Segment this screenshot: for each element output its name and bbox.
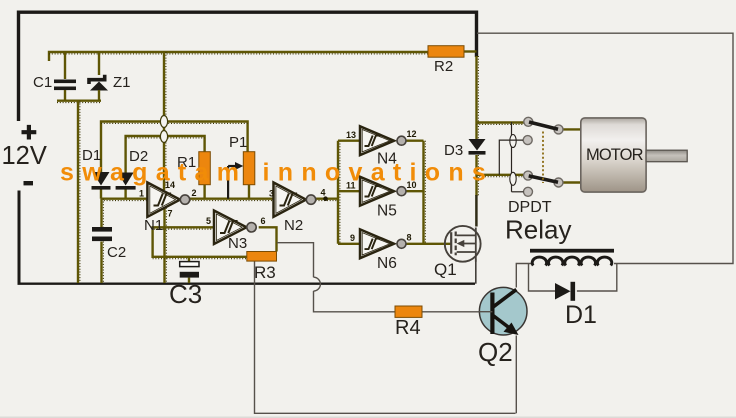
relay contact pole2 (524, 171, 533, 180)
label C1 (33, 74, 52, 91)
relay contact no2 (554, 178, 563, 187)
motor body (581, 118, 646, 192)
inverter N5 (360, 177, 406, 206)
svg-text:Z1: Z1 (113, 74, 131, 91)
wire N1 pin7 to ground (165, 205, 167, 283)
wire N4 output (406, 139, 424, 141)
label Q2 (478, 337, 513, 367)
capacitor C1 (54, 52, 76, 101)
pin 5 N3 (206, 216, 211, 226)
svg-text:1: 1 (139, 189, 144, 199)
wire ground rail (18, 283, 476, 285)
svg-text:6: 6 (261, 216, 266, 226)
svg-text:12: 12 (407, 129, 417, 139)
wire relay throw1 to motor (563, 128, 581, 130)
label N5 (377, 203, 397, 220)
relay lever1 (529, 122, 558, 129)
resistor R4 (395, 306, 422, 317)
wire C1 Z1 bottom (57, 101, 101, 103)
pin 6 N3 (261, 216, 266, 226)
label N6 (377, 255, 397, 272)
svg-text:swagatam innovations: swagatam innovations (60, 159, 494, 187)
pin 14 N1 (165, 180, 175, 190)
wire N1 pin14 supply (164, 52, 166, 190)
capacitor C2 (92, 227, 112, 241)
wire D2 top to R1 top (126, 136, 205, 173)
svg-text:5: 5 (206, 216, 211, 226)
potentiometer P1 (228, 152, 255, 185)
svg-text:7: 7 (168, 209, 173, 219)
label Relay (505, 215, 571, 245)
pin 10 N5 (407, 180, 417, 190)
hop ellipse over D2 wire (160, 131, 167, 143)
diode D3 (469, 139, 486, 155)
svg-text:N2: N2 (284, 217, 303, 234)
inverter N1 (147, 183, 189, 217)
wire D1 cathode lead (100, 190, 102, 199)
wire Q2 emitter down (515, 336, 517, 414)
battery plus sign (22, 125, 37, 140)
relay coil windings (531, 257, 613, 265)
wire C3 bottom lead (188, 278, 190, 283)
svg-text:C3: C3 (169, 279, 202, 309)
svg-text:R3: R3 (254, 263, 276, 282)
battery 12V label (2, 142, 47, 170)
wire battery positive top border (19, 12, 477, 121)
wire relay feed lower (477, 175, 524, 177)
wire D2 cathode lead (124, 190, 126, 199)
svg-text:D1: D1 (565, 301, 597, 329)
svg-text:3: 3 (269, 189, 274, 199)
pin 3 N2 (269, 189, 274, 199)
node junction dot N2 output (323, 196, 328, 201)
wire R1 bottom lead (203, 185, 205, 199)
wire N4 input (338, 139, 360, 141)
label MOTOR (586, 146, 644, 164)
relay contact pole1 (524, 117, 533, 126)
wire D1 top to P1 top (101, 122, 248, 173)
watermark swagatam innovations (60, 159, 494, 187)
svg-text:N3: N3 (228, 235, 247, 252)
resistor R2 (428, 46, 464, 58)
pin 9 N6 (350, 233, 355, 243)
label R3 (254, 263, 276, 282)
resistor R3 (247, 252, 277, 262)
diode D2 steering (116, 173, 136, 190)
pin 1 N1 (139, 189, 144, 199)
transistor Q2 (479, 287, 528, 335)
wire P1 wiper to output net (227, 166, 229, 199)
pin 12 N4 (407, 129, 417, 139)
label N4 (377, 151, 397, 168)
wire R3 bottom to emitter bottom rail (255, 259, 516, 413)
label N2 (284, 217, 303, 234)
svg-text:C1: C1 (33, 74, 52, 91)
svg-text:N1: N1 (144, 217, 163, 234)
wire freewheel diode loop (529, 264, 617, 292)
mosfet Q1 (445, 226, 481, 262)
SECTION: components (54, 46, 687, 335)
relay nc1 bracket wire (499, 140, 523, 175)
svg-text:12V: 12V (2, 142, 47, 170)
relay contact nc2 (524, 187, 533, 196)
label DPDT (508, 199, 552, 216)
label R4 (395, 317, 421, 339)
wire C1Z1 junction to ground (78, 101, 80, 283)
wire buffers output vertical (424, 141, 426, 244)
svg-text:8: 8 (407, 233, 412, 243)
wire N3 output to R3 right (259, 227, 277, 251)
inverter N3 (214, 211, 256, 245)
wire battery negative lead (18, 191, 21, 283)
wire N3 input loop (153, 227, 247, 258)
label D3 (444, 142, 463, 159)
svg-text:C2: C2 (107, 244, 126, 261)
label R1 (177, 154, 196, 171)
pin 2 N1 (192, 188, 197, 198)
svg-text:Q2: Q2 (478, 337, 513, 367)
bottom edge band (0, 417, 736, 418)
resistor R1 (199, 152, 211, 185)
relay mechanical link (510, 122, 516, 192)
relay nc2 stub (512, 191, 524, 193)
label N3 (228, 235, 247, 252)
relay lever2 (529, 176, 558, 182)
wire R2 right lead (464, 50, 477, 52)
label C2 (107, 244, 126, 261)
svg-text:N6: N6 (377, 255, 397, 272)
label Q1 (434, 260, 457, 279)
inverter N4 (360, 126, 406, 155)
label D1 freewheel (565, 301, 597, 329)
wire motor supply loop (477, 33, 733, 263)
wire N5 input (338, 190, 360, 192)
svg-text:Relay: Relay (505, 215, 571, 245)
label N1 (144, 217, 163, 234)
wire Q1 source to ground (475, 259, 477, 284)
hop ellipse over D1 wire (160, 116, 167, 128)
pin 4 N2 (321, 188, 326, 198)
wire C2 branch (102, 199, 104, 283)
label Z1 (113, 74, 131, 91)
diode D1 steering (92, 172, 111, 190)
wire R4 to Q2 base (422, 311, 479, 313)
relay armature dashed link (542, 132, 544, 184)
wire N6 input (338, 243, 360, 245)
wire N2 output to buffers input (316, 199, 338, 201)
wire N5 output (406, 190, 424, 192)
freewheel diode D1 (555, 282, 575, 301)
svg-text:Q1: Q1 (434, 260, 457, 279)
wire N1 output to N2 input (190, 199, 274, 201)
pin 13 N4 (346, 130, 356, 140)
svg-text:D3: D3 (444, 142, 463, 159)
wire relay feed upper (477, 123, 524, 125)
wire D3 vertical drain feed (476, 56, 478, 227)
svg-text:N5: N5 (377, 203, 397, 220)
svg-text:P1: P1 (229, 134, 247, 151)
wire buffers input vertical (338, 141, 340, 244)
svg-text:R2: R2 (434, 58, 453, 75)
wire +12V top rail (49, 52, 428, 61)
pin 7 N1 (168, 209, 173, 219)
svg-text:DPDT: DPDT (508, 199, 552, 216)
relay contact no1 (554, 125, 563, 134)
label C3 (169, 279, 202, 309)
wire R3 node to R4 gray branch with hop (277, 243, 395, 312)
wire P1 bottom lead (248, 185, 250, 199)
svg-text:R4: R4 (395, 317, 421, 339)
wire relay throw2 to motor (563, 181, 581, 183)
wire main oscillator net N1 input (101, 199, 147, 201)
svg-text:MOTOR: MOTOR (586, 146, 644, 164)
battery minus sign (24, 181, 34, 185)
svg-text:4: 4 (321, 188, 326, 198)
label D2 (129, 148, 148, 165)
inverter N6 (360, 229, 406, 258)
svg-text:2: 2 (192, 188, 197, 198)
hop arc over ground rail (314, 277, 321, 291)
svg-text:13: 13 (346, 130, 356, 140)
relay contact nc1 (523, 136, 532, 145)
label R2 (434, 58, 453, 75)
wire C3 top lead (188, 257, 190, 262)
svg-text:9: 9 (350, 233, 355, 243)
capacitor C3 (180, 262, 199, 278)
motor shaft (646, 150, 687, 162)
pin 11 N5 (346, 181, 356, 191)
relay coil bar (530, 249, 614, 253)
wire Q2 collector to relay coil (516, 264, 531, 288)
wire N6 output to Q1 gate (406, 243, 451, 245)
pin 8 N6 (407, 233, 412, 243)
label D1 (82, 147, 101, 164)
inverter N2 (274, 183, 316, 217)
label P1 (229, 134, 247, 151)
zener diode Z1 (89, 52, 108, 101)
